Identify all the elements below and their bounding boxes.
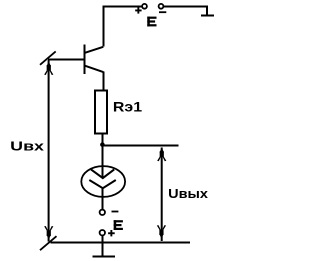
svg-text:Uвых: Uвых bbox=[168, 186, 209, 201]
svg-text:Uвх: Uвх bbox=[10, 139, 45, 154]
svg-text:Rэ1: Rэ1 bbox=[113, 99, 142, 115]
